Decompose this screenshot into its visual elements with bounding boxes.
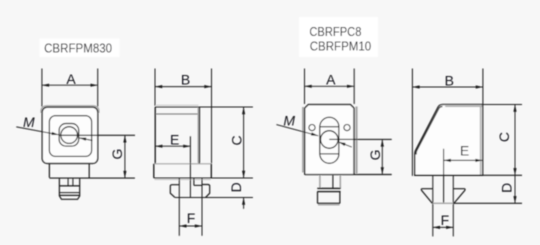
centerline to G reference (view 3)	[329, 138, 391, 140]
D bottom reference (view 4)	[453, 202, 522, 204]
body right edge (view 2)	[198, 107, 200, 164]
gray lid seam line (view 4)	[445, 105, 482, 107]
svg-text:A: A	[66, 71, 76, 87]
stud notch (view 2)	[193, 178, 195, 185]
body outline with chamfered top corners (view 3)	[305, 105, 354, 175]
dimension A (view 3) extension lines	[304, 69, 306, 105]
stud neck edges + F extension lines (view 2)	[178, 178, 180, 236]
leader M line 2 (view 3)	[338, 142, 352, 147]
dimension A (view 1) dimension line with arrows	[42, 84, 98, 86]
svg-text:E: E	[170, 131, 179, 147]
neck bottom + G reference line (view 1)	[49, 177, 134, 179]
body left edge (view 2)	[154, 107, 156, 164]
inner square (view 1)	[49, 116, 91, 157]
gray left silhouette (view 3)	[302, 107, 304, 173]
dimension A (view 3) dimension line	[305, 85, 355, 87]
svg-text:B: B	[445, 73, 454, 89]
gray cap line (view 2)	[156, 113, 199, 115]
svg-text:M: M	[23, 114, 35, 130]
stud neck + F extension lines (view 4)	[432, 175, 434, 236]
obround tangent chords (view 3)	[320, 126, 339, 128]
center circle (view 1)	[61, 127, 78, 144]
flange bottom gray shadow (view 2)	[155, 179, 211, 181]
svg-text:D: D	[499, 183, 515, 193]
threaded stud (view 1)	[59, 179, 79, 200]
stud block gray bottom shadow (view 3)	[318, 204, 340, 206]
title box 2	[299, 17, 378, 57]
svg-text:G: G	[367, 149, 383, 160]
trapezoid wings (view 4)	[421, 189, 465, 204]
stud neck dark midline (view 3)	[332, 175, 334, 189]
dimension G (view 1)	[124, 135, 126, 178]
body bottom + G bottom reference (view 3)	[305, 174, 392, 176]
gray right silhouette (view 2)	[197, 108, 199, 163]
E center reference line (view 4)	[443, 149, 445, 204]
svg-text:CBRFPM830: CBRFPM830	[44, 41, 112, 56]
dimension B (view 4) extension lines	[411, 69, 413, 176]
centerline to G reference (view 1)	[59, 134, 135, 136]
body bottom + D top reference (view 4)	[414, 174, 522, 176]
flange right edge (view 2)	[210, 164, 212, 178]
leader M line 2 (view 1)	[79, 138, 93, 141]
dimension D (view 4)	[514, 175, 516, 203]
svg-text:G: G	[109, 149, 125, 160]
body top + C reference line (view 4)	[444, 104, 522, 106]
svg-text:F: F	[187, 210, 196, 226]
svg-text:E: E	[460, 143, 469, 159]
dimension B (view 2) dimension line	[155, 86, 212, 88]
leader M line 1 (view 3)	[276, 125, 318, 136]
dimension C (view 2)	[243, 107, 245, 178]
flange bottom + D top reference (view 2)	[154, 177, 253, 179]
small circle left (view 3)	[309, 125, 315, 131]
body outer square (view 1)	[42, 107, 97, 163]
flange top line (view 2)	[154, 163, 212, 165]
dimension F (view 2)	[179, 225, 202, 227]
svg-text:B: B	[181, 72, 190, 88]
nut wings (view 2)	[170, 185, 209, 198]
dimension B (view 2) extension lines	[154, 69, 156, 106]
leader M line 1 (view 1)	[16, 127, 59, 135]
svg-text:C: C	[496, 132, 512, 142]
dimension A (view 1) extension lines	[41, 69, 43, 107]
flange left edge (view 2)	[153, 164, 155, 178]
stud block (view 3)	[317, 192, 319, 204]
dimension E (view 4)	[444, 159, 483, 161]
nut bottom + D bottom reference (view 2)	[175, 197, 253, 199]
stud neck gray sides (view 3)	[319, 175, 321, 189]
center circle (view 3)	[321, 131, 339, 149]
dimension D (view 2) outside arrows	[243, 198, 245, 209]
svg-text:A: A	[326, 72, 336, 88]
svg-text:M: M	[283, 112, 295, 128]
svg-text:CBRFPC8: CBRFPC8	[309, 24, 361, 39]
dimension C (view 4)	[514, 105, 516, 176]
gray lid line above body (view 2)	[156, 104, 199, 106]
svg-text:D: D	[228, 182, 244, 192]
trapezoid gray bottom (view 4)	[433, 202, 454, 204]
title box 1	[40, 39, 120, 58]
svg-text:C: C	[229, 135, 245, 145]
svg-text:F: F	[441, 212, 450, 228]
obround slot (view 3)	[320, 117, 339, 163]
bevel inner line (view 4)	[416, 106, 442, 154]
dimension G (view 3)	[381, 139, 383, 174]
E center reference line (view 2)	[189, 136, 191, 197]
body top edge + C reference line (view 2)	[155, 106, 253, 108]
stud slot lines (view 1)	[67, 179, 69, 186]
svg-text:CBRFPM10: CBRFPM10	[310, 39, 372, 54]
gray right silhouette (view 3)	[355, 107, 357, 174]
neck below body (view 1)	[48, 163, 50, 177]
dimension F (view 4)	[433, 226, 454, 228]
gray lid silhouette (view 1)	[41, 106, 99, 113]
dimension B (view 4) dimension line	[412, 86, 483, 88]
small circle right (view 3)	[344, 125, 350, 131]
dimension E (view 2)	[155, 145, 190, 147]
stud collar (view 3)	[317, 187, 340, 189]
gray right silhouette (view 4)	[480, 107, 482, 175]
body outline with bevel (view 4)	[415, 105, 483, 176]
center rounded rect (view 1)	[59, 124, 79, 147]
